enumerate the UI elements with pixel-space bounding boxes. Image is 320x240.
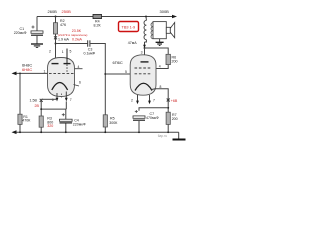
resistor R4 8.2K [93, 14, 102, 27]
svg-text:+6В: +6В [171, 99, 178, 103]
tube V2 control grid dashed [135, 73, 153, 75]
heater arrow V2 right [148, 95, 155, 104]
pin 6 stub right lower [74, 85, 80, 87]
svg-text:2: 2 [131, 99, 133, 103]
ground under C1 [31, 44, 43, 47]
resistor R6 200 screen [166, 54, 178, 64]
svg-text:1.9 мА: 1.9 мА [58, 37, 69, 41]
wire cathode node horizontal [41, 108, 66, 110]
transformer T1 primary coil [144, 17, 146, 40]
svg-text:6ap.ru: 6ap.ru [158, 134, 168, 138]
svg-text:5: 5 [70, 50, 72, 54]
wire cathode node to C7 [139, 108, 168, 111]
svg-text:4: 4 [78, 65, 80, 69]
svg-text:260В: 260В [48, 9, 58, 14]
node B+ arrow 300V [172, 15, 177, 18]
tube V2 screen grid dashed [135, 67, 153, 69]
svg-text:470К: 470К [22, 119, 31, 123]
tube V1 cathode arc [52, 83, 68, 91]
resistor R2 47K anode load [53, 17, 67, 64]
capacitor C7 470мкФ [133, 110, 159, 132]
svg-text:300К: 300К [109, 121, 118, 125]
svg-text:250В: 250В [62, 9, 72, 14]
tube V2 plate (pin 3) [141, 61, 149, 63]
capacitor C1 220мкФ [14, 17, 43, 44]
svg-text:ТВЗ 1-9: ТВЗ 1-9 [122, 26, 136, 30]
node R1 junction [19, 72, 21, 74]
node rail left arrow [12, 130, 17, 134]
input wire with arrow [14, 72, 48, 74]
transformer T1 secondary loop [153, 22, 166, 39]
svg-text:8.2К: 8.2К [94, 24, 102, 28]
node junction cathode [40, 108, 42, 110]
resistor R1 470K [18, 73, 31, 132]
svg-text:0.1мкФ: 0.1мкФ [84, 52, 96, 56]
tube V2 6P6S envelope [130, 55, 156, 95]
svg-text:5: 5 [125, 70, 127, 74]
wire ground rail bottom [14, 131, 179, 133]
node test point X anode V1 [54, 36, 57, 39]
resistor R5 300K grid leak [103, 115, 118, 127]
svg-text:470мкФ: 470мкФ [146, 116, 159, 120]
wire anode node [144, 47, 146, 49]
capacitor C3 coupling [84, 40, 96, 55]
tube V1 6N8S envelope [48, 58, 75, 97]
tube V1 cathode lead [60, 94, 62, 98]
tube V2 cathode lead [152, 89, 168, 132]
svg-text:200: 200 [172, 60, 178, 64]
svg-text:1: 1 [62, 50, 64, 54]
wire top B+ rail right segment [102, 16, 176, 18]
speaker [166, 22, 174, 37]
node test point X cathode V1 [40, 99, 43, 102]
wire R3 branch vertical [40, 100, 42, 132]
svg-text:220мкФ: 220мкФ [73, 122, 86, 126]
node grid2 junction [104, 73, 106, 75]
svg-text:6: 6 [79, 81, 81, 85]
ground under secondary [156, 39, 164, 46]
node junction cathode V2 [167, 107, 169, 109]
tube V1 plate 2 (pin 5) [64, 49, 71, 74]
tube V1 plate 1 (pin 2) [52, 63, 59, 65]
svg-text:47мА: 47мА [128, 41, 137, 45]
tube V1 grid dashed [49, 72, 74, 74]
svg-text:6П6С: 6П6С [113, 60, 123, 65]
resistor R3 800 cathode bias [39, 116, 53, 128]
svg-text:300В: 300В [160, 9, 170, 14]
svg-text:2: 2 [49, 50, 51, 54]
ground symbol right [173, 132, 186, 139]
wire coupling to C3 [56, 43, 88, 45]
wire top B+ rail left segment [37, 16, 93, 18]
svg-text:3: 3 [141, 50, 143, 54]
svg-text:4: 4 [159, 65, 161, 69]
capacitor C4 220мкФ bypass [60, 109, 86, 132]
svg-text:1.5В: 1.5В [30, 99, 38, 103]
svg-text:47К: 47К [60, 23, 67, 27]
wire grid2 [105, 73, 134, 75]
wire R6 to screen pin 4 [155, 65, 168, 69]
wire C3 to grid node [90, 44, 105, 133]
tube V2 cathode arc [135, 83, 152, 90]
svg-text:7: 7 [70, 98, 72, 102]
svg-text:6Н8С: 6Н8С [22, 67, 32, 72]
svg-text:220мкФ: 220мкФ [14, 31, 27, 35]
anode current arrow down [143, 40, 146, 48]
node junction R2 top [55, 16, 57, 18]
svg-text:7: 7 [153, 99, 155, 103]
node junction transformer top [145, 16, 147, 18]
transformer TVZ red box label [119, 22, 139, 32]
resistor R7 200 cathode bias [166, 112, 178, 124]
wire cathode V1 horizontal [41, 98, 57, 100]
svg-text:0.2мА: 0.2мА [72, 37, 82, 41]
rail junction dots [19, 131, 169, 133]
svg-text:320: 320 [47, 124, 53, 128]
pin 4 stub right [75, 68, 83, 70]
heater arrow V1 right [65, 92, 72, 110]
node test point X cathode V2 [167, 99, 170, 102]
heater arrow V1 left [52, 93, 59, 102]
heater arrow V2 left [131, 95, 139, 104]
svg-text:2В: 2В [35, 104, 40, 108]
svg-text:200: 200 [172, 117, 178, 121]
svg-text:8: 8 [160, 85, 162, 89]
